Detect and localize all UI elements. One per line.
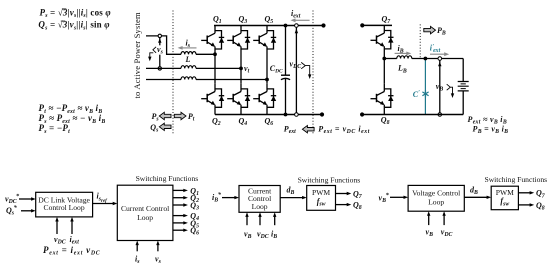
svg-text:iB*: iB* <box>212 192 222 204</box>
box DC Link Voltage Control Loop <box>36 192 93 217</box>
svg-text:isref: isref <box>97 192 109 204</box>
leg1 wire <box>214 49 216 115</box>
leg wire Q7-Q8 <box>383 59 385 84</box>
transistor Q5 <box>253 26 276 50</box>
leg3 wire <box>266 49 268 115</box>
node A top circle <box>158 34 161 37</box>
inductor L phase C <box>181 77 196 80</box>
inductor LB <box>397 56 412 59</box>
wire dB 2 <box>464 196 487 198</box>
transistor Q6 <box>253 84 276 108</box>
inductor L phase B <box>181 66 196 69</box>
svg-text:LB: LB <box>397 64 407 75</box>
svg-text:vB: vB <box>244 229 252 240</box>
wire dB 1 <box>280 197 303 199</box>
svg-text:Q1: Q1 <box>213 15 222 26</box>
arrow vDC* <box>19 198 32 200</box>
svg-text:Q3: Q3 <box>239 15 248 26</box>
svg-text:Qs*: Qs* <box>6 205 17 217</box>
output Q5 <box>173 222 185 224</box>
wire phase C <box>146 79 267 81</box>
mid wire right <box>412 58 463 60</box>
output Q6 <box>173 229 185 231</box>
box PWM 2 <box>491 186 518 210</box>
output Q3 <box>173 204 185 206</box>
top rail <box>214 25 324 27</box>
arrow Qs* <box>21 210 32 212</box>
wire phase B <box>146 67 241 69</box>
vDC measurement line <box>295 27 297 112</box>
svg-text:dB: dB <box>287 185 295 196</box>
svg-text:Loop: Loop <box>252 202 268 211</box>
block arrow Ps <box>159 112 171 119</box>
arrow i'ext gray <box>430 53 446 55</box>
arrow vDC feedback d2 <box>259 216 261 225</box>
arrow iext feedback <box>71 220 73 234</box>
svg-text:i′ext: i′ext <box>430 43 441 54</box>
leg2 wire <box>240 49 242 115</box>
svg-text:Q4: Q4 <box>239 116 248 127</box>
node CDC bottom <box>284 113 288 117</box>
svg-text:Switching Functions: Switching Functions <box>484 175 547 184</box>
node mid leg <box>382 57 386 61</box>
block arrow Qs <box>159 123 171 130</box>
vB measurement line <box>439 60 441 112</box>
output Q7 d2 <box>336 193 348 195</box>
arrow vs feedback <box>157 244 159 251</box>
dashed boundary 3 <box>419 24 421 58</box>
svg-text:vB: vB <box>426 228 434 239</box>
svg-text:PB = vB iB: PB = vB iB <box>473 124 509 135</box>
block arrow Pt <box>174 112 186 119</box>
node tap leg2 <box>239 67 243 71</box>
svg-text:Voltage Control: Voltage Control <box>412 189 460 198</box>
svg-text:Control Loop: Control Loop <box>44 203 85 212</box>
transistor Q3 <box>227 26 250 50</box>
svg-text:Pext: Pext <box>284 125 296 136</box>
transistor Q4 <box>227 84 250 108</box>
svg-text:Q8: Q8 <box>353 201 362 212</box>
node A bottom circle <box>158 67 161 70</box>
svg-text:Q7: Q7 <box>382 14 392 25</box>
arrow iB feedback d2 <box>274 216 276 225</box>
asterisk C' <box>422 90 428 97</box>
output Q4 <box>173 215 185 217</box>
svg-text:Pext = iext vDC: Pext = iext vDC <box>43 245 100 257</box>
box Current Control Loop 2 <box>239 186 280 213</box>
box PWM 1 <box>307 186 336 211</box>
svg-text:Q5: Q5 <box>265 15 274 26</box>
arrow iext gray <box>294 19 309 21</box>
wire isref <box>93 203 114 205</box>
svg-text:iB: iB <box>271 229 277 240</box>
Q8 emitter wire <box>383 107 385 114</box>
transistor Q7 <box>371 25 394 49</box>
svg-text:is: is <box>135 254 140 265</box>
arrow is feedback <box>136 244 138 251</box>
svg-text:Switching Functions: Switching Functions <box>136 174 199 183</box>
vs elbow arrow <box>150 47 156 59</box>
svg-text:Pt: Pt <box>188 112 195 123</box>
svg-text:vDC: vDC <box>290 59 302 70</box>
node tap leg1 <box>213 52 217 56</box>
svg-text:dB: dB <box>470 185 478 196</box>
svg-text:Q2: Q2 <box>212 116 221 127</box>
svg-text:L: L <box>185 55 191 64</box>
arrow vDC feedback <box>56 220 58 234</box>
svg-text:Loop: Loop <box>428 198 444 207</box>
sqrt overline 1 <box>61 9 67 21</box>
arrow vB* <box>390 196 405 198</box>
svg-text:Switching Functions: Switching Functions <box>298 175 361 184</box>
arrow vDC feedback d3 <box>443 215 445 225</box>
dashed boundary 2 <box>312 11 314 134</box>
svg-text:vs: vs <box>155 254 162 265</box>
svg-text:to Active Power System: to Active Power System <box>132 12 142 99</box>
arrow iB gray <box>395 52 408 54</box>
wire phase A upper with jog <box>146 36 181 54</box>
capacitor CDC branch <box>285 26 287 115</box>
arrow vB feedback d2 <box>246 216 248 225</box>
svg-text:C′: C′ <box>413 90 420 99</box>
arrow is gray <box>182 47 197 49</box>
transistor Q8 <box>371 84 394 108</box>
svg-text:Current Control: Current Control <box>121 204 169 213</box>
box Voltage Control Loop <box>408 185 464 211</box>
svg-text:Pext = vDC iext: Pext = vDC iext <box>318 125 370 136</box>
svg-text:vDC: vDC <box>441 228 453 239</box>
svg-text:Ps: Ps <box>152 112 160 123</box>
mid wire left <box>384 58 397 60</box>
svg-text:Ps = −Pt: Ps = −Pt <box>39 123 71 135</box>
Q7 emitter wire <box>383 49 385 59</box>
bottom rail dot <box>360 112 364 116</box>
svg-text:PWM: PWM <box>496 188 514 197</box>
arrow iB* <box>222 197 236 199</box>
block arrow Pext <box>302 126 314 133</box>
svg-text:iext: iext <box>291 9 301 20</box>
output Q7 d3 <box>518 192 530 194</box>
dashed boundary 1 <box>172 11 174 134</box>
svg-text:Qs: Qs <box>150 123 159 134</box>
transistor Q1 <box>201 26 224 50</box>
virtual capacitor C' teal line <box>424 59 426 115</box>
svg-text:vDC*: vDC* <box>5 193 20 205</box>
svg-text:fsw: fsw <box>317 197 326 208</box>
output Q2 <box>173 197 185 199</box>
output Q8 d3 <box>518 204 530 206</box>
battery B <box>462 59 464 115</box>
svg-text:vB*: vB* <box>379 192 390 204</box>
label vs <box>156 45 165 54</box>
output Q8 d2 <box>336 204 348 206</box>
bottom rail <box>215 114 322 116</box>
block arrow PB <box>424 26 436 33</box>
top rail end dot <box>321 23 325 27</box>
svg-text:vt: vt <box>244 64 250 75</box>
svg-text:Q8: Q8 <box>536 201 545 212</box>
bottom rail battery converter <box>362 114 463 116</box>
svg-text:Q7: Q7 <box>353 189 363 200</box>
arrow vB feedback d3 <box>428 215 430 225</box>
svg-text:Q7: Q7 <box>536 189 546 200</box>
source vs measurement line <box>159 38 161 67</box>
inductor L phase A <box>181 52 196 55</box>
output Q1 <box>173 189 185 191</box>
svg-text:Q6: Q6 <box>265 116 274 127</box>
bottom rail end dot <box>320 112 324 116</box>
vB elbow arrow <box>447 84 453 95</box>
svg-text:Ps = √3|vs||is| cos φ: Ps = √3|vs||is| cos φ <box>40 7 111 19</box>
node tap leg3 <box>265 78 269 82</box>
svg-text:vDC: vDC <box>257 229 269 240</box>
svg-text:PB: PB <box>437 26 446 37</box>
node teal top <box>424 57 428 61</box>
svg-text:Qs = √3|vs||is| sin φ: Qs = √3|vs||is| sin φ <box>38 20 109 32</box>
battery converter top rail <box>362 24 392 26</box>
svg-text:CDC: CDC <box>270 64 283 75</box>
node CDC top <box>284 24 288 28</box>
vDC elbow arrow <box>301 62 310 76</box>
svg-text:Loop: Loop <box>137 213 153 222</box>
box Current Control Loop 1 <box>117 185 173 240</box>
top rail dot <box>360 23 364 27</box>
svg-text:Q8: Q8 <box>381 115 390 126</box>
svg-text:PWM: PWM <box>312 188 330 197</box>
wire phase A to leg1 <box>196 53 215 55</box>
transistor Q2 <box>201 84 224 108</box>
svg-text:fsw: fsw <box>500 197 509 208</box>
